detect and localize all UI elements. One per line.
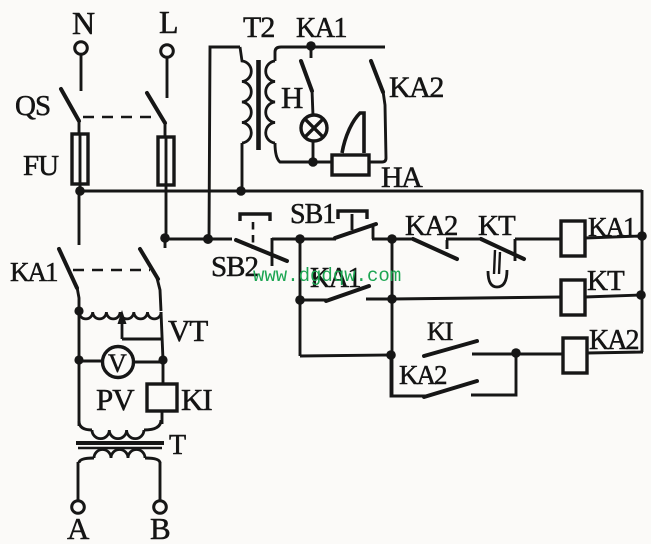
svg-text:VT: VT xyxy=(168,313,208,348)
node seal right xyxy=(387,294,397,304)
coil KA2 body xyxy=(563,338,587,373)
wire KA2 parallel right xyxy=(471,353,516,395)
transformer T2 secondary coil xyxy=(266,61,275,143)
SB2 dashed stem xyxy=(252,222,255,249)
bell HA horn xyxy=(342,113,364,153)
svg-text:KI: KI xyxy=(181,382,212,417)
svg-text:FU: FU xyxy=(23,150,59,182)
contact KA1 pole2 blade xyxy=(140,249,158,279)
svg-text:KA1: KA1 xyxy=(296,13,346,44)
terminal L xyxy=(161,45,174,58)
terminal B xyxy=(154,501,167,514)
voltmeter PV circle xyxy=(103,347,134,378)
wire KA2 NC stub xyxy=(446,240,449,249)
contact KA1 pole1 blade xyxy=(59,249,77,288)
wire left branch from bus1 xyxy=(78,191,81,245)
wire signal bottom horizontal xyxy=(275,143,332,162)
node seal left xyxy=(295,295,305,305)
wire N stem xyxy=(80,54,83,91)
wire T primary right corner xyxy=(144,420,161,430)
contact KA2 top blade xyxy=(371,61,383,92)
wire VT wiper horizontal xyxy=(122,338,161,341)
node bus2 x300 xyxy=(295,234,305,244)
coil KI body xyxy=(147,384,177,411)
svg-text:KT: KT xyxy=(478,210,516,242)
node VT left xyxy=(74,306,83,315)
wire KA1 right tail xyxy=(157,278,161,311)
node bus1 T2 xyxy=(236,186,246,196)
wire SB1 right stub xyxy=(372,226,375,239)
wire through right fuse xyxy=(165,137,168,238)
svg-text:KI: KI xyxy=(427,317,453,346)
coil KA1 body xyxy=(561,221,585,256)
wire vertical x300 xyxy=(299,239,302,356)
svg-text:V: V xyxy=(108,349,127,378)
autotransformer VT coil xyxy=(79,312,161,319)
wire voltmeter row right xyxy=(134,361,163,364)
wire KA1 coil to right rail xyxy=(585,236,642,238)
wire bus2 segment 4 xyxy=(446,238,483,241)
wire bus2 segment 2 xyxy=(272,238,336,241)
svg-text:KA1: KA1 xyxy=(588,212,635,242)
wire left vertical to T xyxy=(78,361,81,426)
wire T secondary right corner xyxy=(145,458,160,463)
contact KI blade xyxy=(424,341,477,356)
QS dashed link xyxy=(83,116,158,119)
transformer T2 core xyxy=(256,60,261,150)
svg-text:B: B xyxy=(150,511,170,544)
wire KA2 parallel branch xyxy=(391,355,426,396)
switch QS pole 1 blade xyxy=(61,89,79,121)
svg-text:PV: PV xyxy=(96,382,135,417)
node right rail KA1 xyxy=(637,231,647,241)
wire KI coil to T xyxy=(161,411,164,424)
wire T2 top right horizontal xyxy=(275,47,385,61)
KT delay symbol cup xyxy=(488,270,507,287)
wire T2 left vertical and top xyxy=(209,47,240,239)
contact KA1 lamp blade xyxy=(301,61,312,91)
wire KT coil to right rail xyxy=(585,295,641,297)
svg-text:KT: KT xyxy=(587,265,625,297)
VT wiper arrow stem xyxy=(121,318,124,339)
wire QS right tail xyxy=(164,121,167,137)
KT delay symbol lines xyxy=(494,250,500,274)
wire seal row left xyxy=(300,299,328,302)
wire KI row xyxy=(300,355,391,356)
wire lamp branch stub xyxy=(310,47,313,58)
wire vertical x392 xyxy=(391,239,394,396)
svg-text:SB1: SB1 xyxy=(290,199,335,230)
svg-text:H: H xyxy=(281,80,303,115)
wire stub below bus2 left xyxy=(164,239,167,248)
transformer T core upper line xyxy=(76,441,164,445)
contact SB1 blade xyxy=(335,224,376,238)
svg-text:L: L xyxy=(159,4,178,40)
wire T2 left coil bottom tail xyxy=(241,143,244,190)
fuse FU2 body xyxy=(158,137,174,185)
wire voltmeter row left xyxy=(79,360,102,363)
wire KA1 left tail xyxy=(77,287,79,311)
contact KA1 seal blade xyxy=(326,286,369,301)
lamp H circle xyxy=(301,115,327,141)
node right rail KT xyxy=(636,290,646,300)
bell HA body xyxy=(332,155,369,175)
wire KA2 coil to right rail xyxy=(587,352,643,353)
node lamp top xyxy=(306,41,316,51)
SB1 button cap xyxy=(338,211,367,219)
SB1 button stem xyxy=(351,214,354,230)
contact KA2 NC blade xyxy=(413,239,457,259)
wire bus2 segment 5 xyxy=(515,238,561,241)
wire T secondary left corner xyxy=(79,458,94,463)
svg-text:KA2: KA2 xyxy=(399,360,447,390)
node KI row left xyxy=(386,350,396,360)
svg-text:T: T xyxy=(169,430,186,461)
transformer T secondary coil xyxy=(94,450,145,459)
contact KT NC blade xyxy=(481,239,524,259)
wire right rail vertical xyxy=(641,190,644,352)
wire seal row right into KT coil row xyxy=(366,297,561,299)
VT wiper arrowhead xyxy=(118,310,127,324)
node V row right xyxy=(158,355,167,364)
svg-text:A: A xyxy=(67,511,90,544)
node KI row right xyxy=(511,348,521,358)
svg-text:N: N xyxy=(72,5,95,41)
fuse FU1 body xyxy=(72,134,88,184)
wire VT left vertical xyxy=(78,311,81,360)
svg-text:www.dgdqw.com: www.dgdqw.com xyxy=(253,265,401,287)
KA1 dashed link xyxy=(73,269,150,272)
wire SB2 right stub xyxy=(271,238,274,266)
wire leg to terminal B xyxy=(159,462,162,501)
svg-text:KA2: KA2 xyxy=(405,210,457,242)
wire VT right vertical xyxy=(161,312,163,360)
node bus2 x392 xyxy=(387,234,397,244)
SB2 button cap xyxy=(240,214,270,221)
wire right vertical to KI coil xyxy=(162,360,165,384)
transformer T primary coil xyxy=(92,430,144,439)
transformer T2 primary coil xyxy=(240,47,251,143)
wire KI row right xyxy=(472,353,563,356)
wire bus2 segment 3 xyxy=(372,238,414,241)
wire lamp branch mid xyxy=(312,90,313,116)
svg-text:QS: QS xyxy=(15,90,50,122)
contact SB2 blade xyxy=(236,240,287,261)
wire T primary left corner xyxy=(79,421,92,430)
terminal A xyxy=(72,501,85,514)
svg-text:T2: T2 xyxy=(243,11,274,44)
wire through left fuse xyxy=(79,134,82,191)
svg-text:KA2: KA2 xyxy=(589,325,638,356)
coil KT body xyxy=(561,280,585,315)
svg-text:KA1: KA1 xyxy=(10,257,57,287)
terminal N xyxy=(75,42,88,55)
wire leg to terminal A xyxy=(77,462,80,501)
node bus2 x208 xyxy=(203,234,213,244)
node V row left xyxy=(74,355,83,364)
wire KT NC stub xyxy=(514,239,517,261)
transformer T core lower line xyxy=(78,447,162,450)
wire bus1 main horizontal xyxy=(79,190,642,193)
wire lamp bottom stem xyxy=(312,141,315,162)
wire bus2 segment 1 xyxy=(166,238,232,241)
wire QS left tail xyxy=(78,119,81,134)
svg-text:SB2: SB2 xyxy=(211,251,258,283)
wire KA2 branch down xyxy=(369,91,386,162)
svg-text:HA: HA xyxy=(381,161,423,194)
node bus1 left xyxy=(75,186,85,196)
node bus2 left xyxy=(160,233,170,243)
node lamp bottom xyxy=(308,157,318,167)
lamp H cross xyxy=(305,119,323,137)
svg-text:KA2: KA2 xyxy=(389,71,443,104)
wire L stem xyxy=(166,57,169,98)
contact KA2 parallel blade xyxy=(424,381,477,397)
switch QS pole 2 blade xyxy=(147,93,165,123)
